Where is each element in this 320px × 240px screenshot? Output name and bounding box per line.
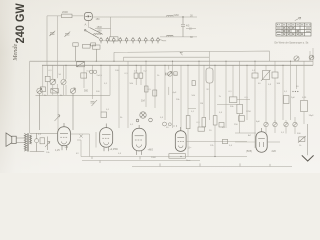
resistor R21 [40,138,45,144]
potentiometer P3 [55,115,61,121]
scattered value labels [38,70,314,162]
wire left vertical [46,16,48,65]
capacitor C17 [219,123,224,128]
wire short y28.6 [95,28,111,30]
potentiometer P2 [61,79,66,84]
resistor R18 [237,104,243,113]
wire chassis y95.3 [36,94,111,96]
padder capacitor C7 [51,89,59,93]
capacitor C11 [35,133,39,151]
trimmer capacitor C1 [49,31,55,36]
tube V5 rectifier [256,128,267,152]
potentiometer P1 [50,79,56,85]
wire grid top bus [93,16,197,18]
table X marks [283,27,303,35]
crossover mark [80,135,83,138]
capacitor C4 [90,70,97,73]
svg-text:240 GW: 240 GW [15,3,28,43]
svg-text:2µF: 2µF [291,97,295,99]
wire heater drops [90,132,97,157]
trimmer capacitor C2 [64,32,70,37]
socket circles under V4 [163,122,172,126]
resistor R10 [139,73,143,78]
svg-text:2000: 2000 [62,10,68,14]
svg-text:A: A [85,23,87,27]
band switch contacts [100,37,160,43]
resistor R3 [93,45,101,61]
IF transformer T1 [206,68,213,83]
capacitor C14 [153,90,157,96]
resistor R14 [101,112,107,118]
tube V4 (RES164) [175,127,186,151]
wire tube V1 drop [77,140,81,157]
svg-text:Netz: Netz [186,159,191,162]
resistor R5 [83,44,91,48]
node J1 [182,16,183,17]
wire mains vertical [307,124,309,155]
wire y104 [217,103,237,105]
resistor R8 [81,73,87,78]
resistor R19 [239,116,245,122]
coupling coil L4 [77,62,85,67]
capacitor C3 [181,17,185,37]
pilot lamp La2 [309,55,314,60]
wire speaker to transformer [16,133,57,151]
svg-text:1250: 1250 [246,111,252,113]
resistor R4 [73,43,78,61]
resistor R20 [301,101,308,112]
resistor R6 [40,87,45,92]
svg-text:220: 220 [272,149,277,153]
ballast box B1 [169,154,186,159]
wire pot P2 drop [63,65,65,95]
wire bottom bus y156.5 [81,156,247,158]
antenna socket A [84,12,92,20]
wire antenna top [47,15,83,17]
capacitor C12 [91,43,96,46]
svg-text:2x0,5: 2x0,5 [97,75,103,77]
wire bottom bus y160.5 [82,160,200,162]
lamp row D4 [293,122,297,126]
wire y99.7 [237,99,250,101]
coil L2 [167,15,174,16]
capacitor C15 [198,127,205,131]
tube V2 (RENS1214) [100,124,113,152]
loudspeaker LS [6,133,16,147]
tube table pointer arrow [295,17,301,20]
svg-text:+2,25W: +2,25W [110,148,119,151]
electrolytic capacitor C5 [166,71,178,76]
output transformer T2 secondary [30,135,32,144]
table header dots [277,24,280,25]
svg-text:(505): (505) [246,149,252,153]
band switch lever [84,28,102,39]
grid leak dots [292,91,298,92]
svg-text:U~: U~ [188,146,192,150]
svg-text:2x60: 2x60 [174,14,180,17]
capacitor C18 [192,81,195,86]
tuning capacitor C6 [37,88,42,130]
wire y57.2 [124,56,210,58]
tube V1 (REN904) [58,123,71,150]
resistor R7 [45,76,50,81]
svg-text:6µF: 6µF [256,121,260,123]
tuning capacitor C8 [70,88,75,130]
wire y108.5 [188,108,196,110]
wire x114 drop [113,52,115,61]
lamp row D1 [264,122,268,126]
wire drops from buses [48,16,313,157]
pilot lamp La1 [294,56,299,61]
wire bottom bus y166.4 [132,165,292,167]
resistor R12 with arrow [261,70,271,81]
resistor R1 [62,14,73,18]
svg-text:4µF: 4µF [173,92,177,94]
wire R6 drop [42,65,44,95]
svg-text:2000: 2000 [151,157,157,159]
coil L3 [167,35,174,36]
resistor R15 [186,116,190,129]
lamp row D2 [273,122,277,126]
resistor R22 [298,136,306,143]
capacitor C9 [91,100,98,106]
wire y53 sloped [114,51,269,61]
wire y36.9 [160,36,197,38]
wire stub b [186,28,196,30]
svg-text:1M: 1M [141,99,145,103]
svg-text:1M: 1M [200,103,203,105]
wire y133 right [235,133,280,142]
svg-text:150: 150 [96,18,101,21]
wire V1 anode right [71,133,90,135]
svg-text:Die Werte der Spannungen u. St: Die Werte der Spannungen u. Str. [275,41,310,44]
wire y38.4 switch out [159,40,166,41]
wire y65.3 bus [42,64,313,66]
table cell marks [277,25,311,35]
bottom terminal ticks [92,157,270,167]
resistor R9 [134,73,138,78]
magic eye socket [136,112,152,122]
potentiometer P4 [45,137,50,151]
wire osc vertical [110,17,112,37]
wire V4 anode right [186,141,247,143]
wire transformer left vertical [29,61,31,133]
ground symbol [302,124,314,161]
resistor R13 [272,72,278,78]
resistor R16 [202,118,206,127]
socket dots [174,126,178,127]
tube V3 (RENS1224) [132,125,146,155]
wire x123.5 drop [123,57,125,61]
resistor R17 [213,116,217,125]
svg-text:1,25: 1,25 [55,149,60,152]
wire y61.2 bus [30,60,313,62]
capacitor C16 [284,96,290,104]
junction arrow on AVC line [180,52,183,55]
resistor R2 [110,37,119,41]
tube socket table [276,23,311,36]
lamp stubs [266,117,295,134]
capacitor block C10 [229,97,237,103]
svg-text:Mende: Mende [12,44,19,62]
capacitor C19 [223,139,228,143]
wire drop x58 [57,95,59,130]
output transformer T2 primary [24,134,26,152]
svg-text:500: 500 [84,90,89,93]
coil L1 [94,34,103,35]
output transformer T2 core [27,133,30,151]
wire pot P1 drop [52,65,54,95]
svg-text:18µF: 18µF [309,115,315,117]
svg-text:+MO: +MO [148,148,154,152]
capacitor C13 [145,86,149,92]
lamp row D3 [284,122,288,126]
resistor R11 [252,73,258,78]
